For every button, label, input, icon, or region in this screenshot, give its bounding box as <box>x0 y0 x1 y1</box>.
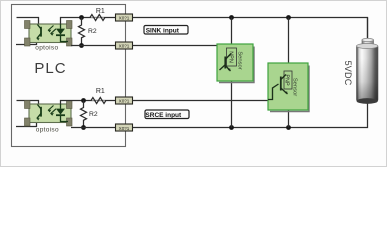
svg-text:R1: R1 <box>96 8 105 15</box>
node rail4/sensor2 <box>286 125 291 130</box>
svg-text:Sensor: Sensor <box>292 78 298 96</box>
wire sensor1 collector drop <box>231 18 233 49</box>
PNP tag box <box>284 71 292 89</box>
resistor R1 (top) zigzag <box>90 15 105 21</box>
SRCE input label <box>145 110 189 119</box>
resistor R2 (vertical) <box>79 18 85 46</box>
terminal X1 <box>116 14 133 21</box>
wire collector stub top-left <box>17 18 39 27</box>
PLC enclosure box <box>12 5 126 147</box>
SINK input label <box>144 26 188 35</box>
sensor2 shadow <box>270 66 309 112</box>
svg-text:R1: R1 <box>96 88 105 95</box>
transistor Q1 (NPN) <box>220 54 232 72</box>
sensor2 body <box>268 63 308 110</box>
pin 3 <box>67 101 73 109</box>
wire collector stub <box>17 101 39 107</box>
NPN tag box <box>227 48 237 66</box>
optoisolator U1 body <box>29 24 71 43</box>
pin 1 <box>25 101 31 109</box>
svg-text:PLC: PLC <box>34 60 66 77</box>
svg-text:X0?1: X0?1 <box>119 126 130 131</box>
wire sensor1 emitter drop <box>231 66 233 128</box>
wire LED cathode row to terminal 2 <box>71 45 116 47</box>
phototransistor Q (inside optoiso 2) <box>37 105 41 119</box>
battery body BT1 <box>357 45 379 102</box>
svg-text:SINK input: SINK input <box>146 27 180 34</box>
pin 4 <box>67 118 73 126</box>
svg-text:X0?1: X0?1 <box>119 16 130 21</box>
LED D2 (inside optoiso 2) <box>60 104 62 109</box>
terminal X2 <box>116 42 133 49</box>
svg-text:R2: R2 <box>88 28 97 35</box>
node rail1/sensor2 <box>286 15 291 20</box>
svg-text:SRCE input: SRCE input <box>145 112 182 119</box>
wire rail top (+) <box>133 18 368 41</box>
wire rail bottom (-) <box>133 104 368 128</box>
wire terminal2 to sensor1 input <box>133 46 226 71</box>
wire emitter stub bottom-left <box>16 39 37 45</box>
pin 4 <box>67 38 73 46</box>
wire LED anode to R1/R2 junction (circuit 2) <box>61 101 116 105</box>
battery cap <box>362 40 374 46</box>
wire sensor2 emitter drop <box>288 89 290 128</box>
terminal X4 <box>116 124 133 131</box>
pin 2 <box>25 38 31 46</box>
resistor R1 (bottom) zigzag <box>91 98 106 104</box>
battery positive lead <box>367 18 369 41</box>
optoisolator U2 body <box>29 104 71 123</box>
junction R2 bottom node <box>79 43 84 48</box>
light arrows (inside optoiso 2) <box>48 106 56 114</box>
wire emitter stub <box>16 119 37 127</box>
light arrows (inside optoiso 1) <box>48 26 56 34</box>
svg-text:optoiso: optoiso <box>36 127 59 134</box>
terminal X3 <box>116 97 133 104</box>
junction R1/R2 node <box>81 98 86 103</box>
svg-text:X0?1: X0?1 <box>119 99 130 104</box>
svg-text:X0?1: X0?1 <box>119 44 130 49</box>
svg-text:R2: R2 <box>89 111 98 118</box>
node rail1/sensor1 <box>229 15 234 20</box>
sensor1 body <box>217 44 253 81</box>
wire LED cathode row to terminal 4 <box>71 127 116 129</box>
wire sensor2 collector drop <box>288 18 290 72</box>
svg-text:optoiso: optoiso <box>35 45 58 52</box>
svg-text:Sensor: Sensor <box>237 51 243 69</box>
phototransistor Q (inside optoiso 1) <box>37 25 41 39</box>
wire LED anode to R1/R2 junction <box>61 18 116 25</box>
node rail4/sensor1 <box>229 125 234 130</box>
junction R2 bottom node <box>81 125 86 130</box>
resistor R2 (vertical, circuit 2) <box>81 101 87 128</box>
sensor1 shadow <box>219 47 254 83</box>
wire terminal3 to sensor2 input <box>133 100 269 102</box>
junction R1/R2 node <box>79 15 84 20</box>
pin 2 <box>25 118 31 126</box>
transistor Q2 (PNP) <box>268 75 288 100</box>
LED D1 (inside optoiso 1) <box>60 24 62 29</box>
pin 1 <box>25 21 31 29</box>
svg-text:5VDC: 5VDC <box>343 61 353 86</box>
pin 3 <box>67 21 73 29</box>
